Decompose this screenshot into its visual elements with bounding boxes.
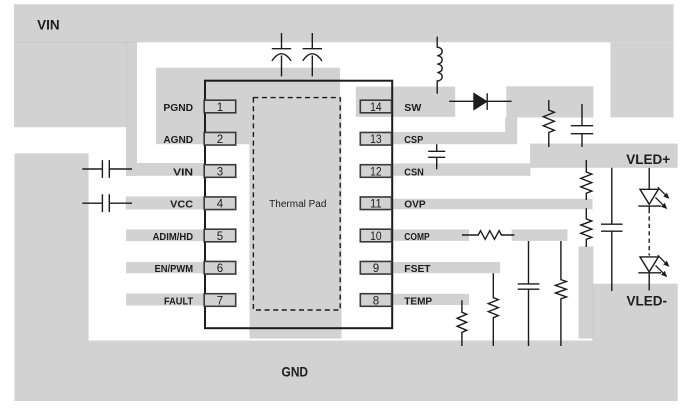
net thermal pad strip to GND [250, 97, 342, 339]
pin 2 box [204, 132, 236, 145]
pin 8 box [360, 294, 391, 307]
LED D2 arrows [656, 187, 670, 209]
net EN/PWM pin bar [126, 262, 205, 273]
net CSP bar [393, 132, 517, 144]
pin 12 box [360, 165, 391, 178]
wire seam VLED- block left edge [592, 284, 594, 341]
pin 4 box [204, 197, 236, 210]
svg-text:4: 4 [217, 199, 224, 211]
LED string dashed wire [648, 209, 650, 256]
svg-text:14: 14 [370, 102, 382, 114]
net PGND/AGND region [156, 68, 340, 145]
svg-text:FAULT: FAULT [164, 295, 194, 307]
svg-text:10: 10 [370, 231, 382, 243]
svg-text:8: 8 [373, 295, 379, 307]
LED D2 triangle [640, 189, 658, 204]
IC U1 package outline [205, 81, 392, 329]
svg-text:13: 13 [370, 134, 382, 146]
svg-text:CSP: CSP [404, 134, 423, 146]
capacitor CSP-CSN C5 [428, 144, 445, 169]
svg-text:EN/PWM: EN/PWM [155, 263, 194, 275]
net FAULT pin bar [126, 294, 205, 306]
net VIN left block [14, 42, 127, 127]
net VCC pin bar [126, 197, 205, 210]
resistor COMP series R4 [462, 231, 514, 240]
LED D2 cathode bar [638, 206, 661, 209]
capacitor input C2 curved plate [303, 54, 322, 77]
svg-text:11: 11 [370, 199, 382, 211]
resistor rectifier R1 [543, 100, 554, 147]
capacitor VLED C7 [601, 168, 623, 291]
LED D3 triangle [640, 257, 658, 272]
net diode cathode block [506, 86, 593, 117]
pin 10 box [360, 229, 391, 242]
svg-text:CSN: CSN [404, 166, 424, 178]
pin 13 box [360, 132, 391, 145]
pin 7 box [204, 294, 236, 307]
svg-text:COMP: COMP [404, 231, 429, 243]
net SW bar [356, 87, 455, 117]
net ADIM/HD pin bar [126, 230, 205, 242]
svg-text:12: 12 [370, 166, 382, 178]
net VIN vertical strip [126, 42, 137, 176]
LED D3 arrows [656, 255, 670, 277]
capacitor input C2 top plate lead [303, 33, 322, 49]
resistor OVP upper R2 [581, 160, 592, 200]
diode D1 anode wire [449, 100, 474, 102]
svg-text:7: 7 [217, 295, 223, 307]
capacitor COMP C8 [518, 241, 540, 346]
net VIN pin bar [126, 163, 205, 176]
resistor COMP R5 [555, 241, 566, 346]
net VIN top plane [14, 4, 674, 42]
svg-text:ADIM/HD: ADIM/HD [153, 231, 194, 243]
capacitor output C6 [571, 104, 593, 147]
diode D1 triangle [474, 93, 487, 109]
svg-text:VCC: VCC [170, 199, 193, 211]
resistor TEMP R7 [457, 300, 467, 346]
svg-text:6: 6 [217, 263, 223, 275]
net top-right block [610, 42, 673, 117]
svg-text:SW: SW [404, 102, 421, 114]
wire seam VIN bar lower edge [14, 41, 137, 43]
capacitor input C1 curved plate [272, 54, 291, 77]
resistor OVP lower R3 [581, 208, 592, 247]
svg-text:FSET: FSET [404, 263, 431, 275]
svg-text:9: 9 [373, 263, 379, 275]
LED D2 anode lead [648, 168, 650, 190]
pin 3 box [204, 165, 236, 178]
LED D3 cathode bar and lead [638, 273, 661, 291]
svg-text:TEMP: TEMP [404, 295, 432, 307]
net GND left block [15, 153, 89, 401]
svg-text:VIN: VIN [173, 166, 193, 178]
wire seam VIN strip left edge [126, 42, 128, 127]
net VLED- block [593, 284, 678, 401]
svg-text:PGND: PGND [163, 102, 193, 114]
pin 6 box [204, 261, 236, 274]
svg-text:3: 3 [217, 166, 223, 178]
resistor FSET R6 [488, 273, 498, 346]
inductor L1 [437, 37, 442, 94]
svg-text:OVP: OVP [404, 199, 425, 211]
svg-text:1: 1 [217, 102, 223, 114]
pin 14 box [360, 100, 391, 113]
net CSP connector stub [505, 118, 517, 133]
svg-text:GND: GND [282, 365, 309, 380]
pin 1 box [204, 100, 236, 113]
net COMP bar right [512, 229, 568, 241]
svg-text:AGND: AGND [163, 134, 193, 146]
svg-text:VLED-: VLED- [627, 294, 668, 309]
net OVP bar [392, 199, 593, 210]
pin 9 box [360, 261, 391, 274]
net FSET bar [393, 262, 500, 273]
svg-text:Thermal Pad: Thermal Pad [269, 199, 326, 210]
net TEMP bar [393, 294, 469, 305]
capacitor VCC bypass C4 [82, 194, 132, 212]
svg-text:5: 5 [217, 231, 223, 243]
net GND bottom plane [15, 341, 594, 402]
svg-text:VLED+: VLED+ [626, 152, 670, 167]
svg-text:VIN: VIN [37, 17, 60, 32]
capacitor VIN bypass C3 [82, 160, 132, 178]
diode D1 cathode bar and wire [487, 93, 511, 110]
pin 5 box [204, 229, 236, 242]
net OVP to GND strip [579, 246, 594, 338]
net CSN bar [393, 163, 531, 175]
thermal pad [253, 98, 340, 310]
svg-text:2: 2 [217, 134, 223, 146]
pin 11 box [360, 197, 391, 210]
capacitor input C1 top plate lead [272, 33, 291, 49]
net VLED+ bar [530, 144, 678, 168]
net COMP bar left [393, 229, 469, 241]
